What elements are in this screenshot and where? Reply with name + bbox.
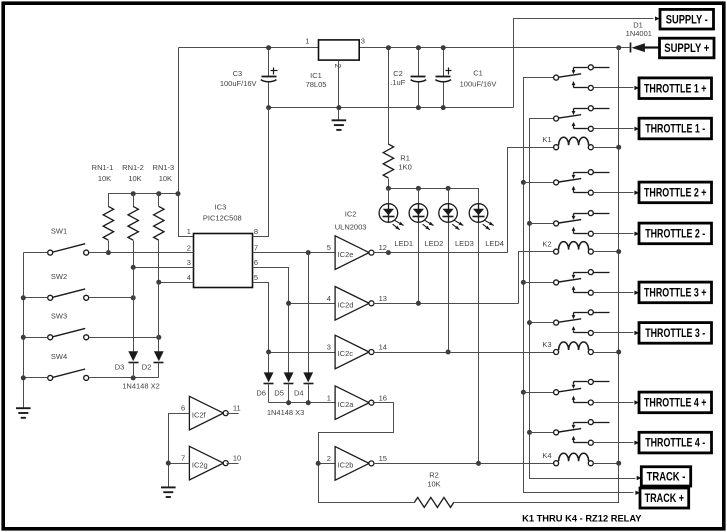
node junction line B contact8 — [527, 430, 532, 435]
node junction K4 bus — [616, 461, 621, 466]
LED4 — [478, 189, 480, 204]
svg-text:IC2c: IC2c — [338, 349, 354, 358]
svg-text:TRACK -: TRACK - — [647, 472, 686, 484]
ground IC2 spare inputs — [161, 487, 176, 497]
svg-text:TRACK +: TRACK + — [645, 493, 685, 505]
wire RN1 top rail — [109, 194, 179, 207]
svg-text:10K: 10K — [98, 174, 111, 183]
svg-text:1: 1 — [187, 227, 191, 236]
svg-text:7: 7 — [254, 243, 258, 252]
node junction IC2b input — [316, 461, 321, 466]
node junction LED4 cathode — [476, 461, 481, 466]
node junction SW3 line — [156, 335, 161, 340]
svg-text:LED4: LED4 — [485, 239, 504, 248]
svg-text:SUPPLY +: SUPPLY + — [664, 43, 709, 55]
svg-text:IC2b: IC2b — [338, 461, 354, 470]
relay contact K3a — [554, 280, 559, 285]
connector THROTTLE 3 - — [639, 323, 712, 344]
relay coil K1 — [554, 145, 559, 150]
node junction RN1 rail at RN1-2 — [131, 191, 136, 196]
svg-text:1: 1 — [305, 37, 309, 46]
connector TRACK + — [640, 488, 689, 508]
wire RN1-2 line down to D3 — [133, 268, 135, 352]
switch SW1 — [48, 250, 53, 255]
svg-text:THROTTLE 3 +: THROTTLE 3 + — [644, 288, 707, 300]
diode D2 1N4148 — [154, 351, 164, 361]
wire line A branch contact5 — [524, 282, 554, 284]
wire line A branch contact3 — [524, 182, 554, 184]
node junction SW2 common — [21, 295, 26, 300]
diode D6 1N4148 — [264, 372, 274, 382]
svg-text:78L05: 78L05 — [306, 80, 327, 89]
svg-text:10K: 10K — [427, 479, 440, 488]
wire V+ bus vertical — [618, 48, 620, 464]
svg-text:4: 4 — [187, 273, 191, 282]
wire diode OR rail to IC2a — [269, 402, 336, 404]
wire R2 to V+ bus — [454, 464, 619, 503]
wire PIC pin6 to IC2d — [253, 268, 336, 304]
svg-text:SW4: SW4 — [51, 352, 67, 361]
wire PIC pin5 to IC2c — [253, 283, 336, 353]
svg-text:R1: R1 — [400, 154, 410, 163]
svg-text:IC2d: IC2d — [338, 301, 354, 310]
wire VDD drop to RN1 and PIC pin1 — [179, 48, 194, 237]
svg-text:PIC12C508: PIC12C508 — [203, 213, 242, 222]
svg-text:16: 16 — [379, 393, 387, 402]
svg-text:C2: C2 — [393, 69, 403, 78]
svg-text:1: 1 — [327, 393, 331, 402]
connector SUPPLY + — [660, 38, 715, 58]
node junction anode rail LED2 — [416, 186, 421, 191]
wire track plus line A — [524, 78, 634, 493]
relay coil K4 — [554, 461, 559, 466]
op-amp buffer IC2g — [189, 446, 223, 480]
svg-text:IC1: IC1 — [310, 71, 322, 80]
svg-text:4: 4 — [327, 294, 331, 303]
svg-text:K4: K4 — [542, 451, 551, 460]
diode D1 1N4001 — [619, 47, 630, 49]
svg-text:IC2f: IC2f — [192, 410, 207, 419]
wire ground rail — [269, 107, 514, 109]
node junction LED3 cathode — [446, 350, 451, 355]
svg-text:K3: K3 — [542, 340, 551, 349]
op-amp buffer IC2f — [189, 396, 223, 430]
relay contact K1a — [554, 75, 559, 80]
svg-text:15: 15 — [379, 454, 387, 463]
svg-text:2: 2 — [327, 454, 331, 463]
wire RN1-3 line down to D2 — [158, 283, 160, 352]
connector THROTTLE 3 + — [639, 282, 712, 303]
node junction SW4 common — [21, 375, 26, 380]
diode D3 1N4148 — [128, 351, 138, 361]
svg-text:11: 11 — [233, 404, 241, 413]
resistor RN1-2 10K — [133, 194, 135, 207]
node junction RN1 rail at VDD line — [176, 191, 181, 196]
svg-text:IC2g: IC2g — [192, 460, 208, 469]
node junction SW3 common — [21, 335, 26, 340]
ground switches — [16, 408, 31, 418]
node junction pin4 RN1-3 — [156, 280, 161, 285]
node junction C2 top — [416, 45, 421, 50]
connector THROTTLE 4 - — [639, 432, 712, 453]
svg-text:LED3: LED3 — [455, 239, 474, 248]
connector THROTTLE 2 + — [639, 182, 712, 203]
svg-text:1K0: 1K0 — [398, 163, 411, 172]
svg-text:.1uF: .1uF — [390, 78, 405, 87]
switch SW4 — [48, 375, 53, 380]
wire D6 line down — [268, 353, 270, 373]
svg-text:D6: D6 — [256, 388, 266, 397]
connector THROTTLE 4 + — [639, 392, 712, 413]
node junction C2 bottom — [416, 105, 421, 110]
connector THROTTLE 1 + — [639, 78, 712, 99]
svg-text:THROTTLE 1 -: THROTTLE 1 - — [645, 124, 705, 136]
node junction RN1 rail at RN1-3 — [156, 191, 161, 196]
resistor RN1-3 10K — [158, 194, 160, 207]
connector TRACK - — [641, 467, 690, 486]
relay contact K2a — [554, 180, 559, 185]
node junction pin5 line at IC2c input — [266, 350, 271, 355]
svg-text:IC2a: IC2a — [338, 400, 355, 409]
svg-text:IC2e: IC2e — [338, 250, 354, 259]
svg-text:5: 5 — [254, 273, 258, 282]
wire switch common vertical to ground — [23, 253, 25, 408]
relay contact K1b — [554, 116, 559, 121]
connector THROTTLE 2 - — [639, 223, 712, 244]
node junction SW4 at D3 — [131, 375, 136, 380]
wire line B branch contact6 — [530, 322, 554, 324]
relay coil K3 — [554, 350, 559, 355]
node junction SW2 line — [131, 295, 136, 300]
wire IC1 pin2 to ground rail — [338, 61, 340, 108]
op-amp buffer IC2c — [335, 335, 369, 369]
node junction IC1 ground — [336, 105, 341, 110]
svg-text:1N4148 X3: 1N4148 X3 — [267, 408, 305, 417]
svg-text:14: 14 — [379, 343, 387, 352]
node junction line A contact5 — [521, 280, 526, 285]
svg-text:RN1-2: RN1-2 — [122, 163, 144, 172]
svg-text:3: 3 — [187, 258, 191, 267]
svg-text:3: 3 — [361, 37, 365, 46]
wire line B branch contact4 — [530, 223, 554, 225]
svg-text:100uF/16V: 100uF/16V — [220, 79, 257, 88]
svg-text:LED1: LED1 — [394, 239, 413, 248]
svg-text:IC3: IC3 — [215, 203, 227, 212]
svg-text:R2: R2 — [429, 470, 439, 479]
svg-text:SW1: SW1 — [51, 227, 67, 236]
wire IC2f IC2g inputs to ground — [169, 414, 190, 487]
svg-text:10K: 10K — [159, 174, 172, 183]
svg-text:C3: C3 — [233, 69, 243, 78]
op-amp buffer IC2b — [335, 447, 369, 481]
svg-text:13: 13 — [379, 294, 387, 303]
node junction D5 rail — [286, 400, 291, 405]
svg-text:100uF/16V: 100uF/16V — [460, 79, 497, 88]
node junction anode rail R1 — [386, 186, 391, 191]
wire IC2d output to K2 — [374, 303, 519, 305]
svg-text:D4: D4 — [294, 388, 304, 397]
capacitor C3 — [268, 48, 270, 77]
wire SW3 to diode line — [90, 337, 159, 339]
LED2 — [418, 189, 420, 204]
svg-text:LED2: LED2 — [425, 239, 444, 248]
svg-text:2: 2 — [333, 64, 342, 69]
node junction D4 rail — [306, 400, 311, 405]
svg-text:THROTTLE 3 -: THROTTLE 3 - — [645, 328, 705, 340]
wire LED2 cathode down — [418, 223, 420, 304]
node junction anode rail LED3 — [446, 186, 451, 191]
node junction D1 bus — [616, 45, 621, 50]
svg-text:IC2: IC2 — [345, 209, 357, 218]
wire SW2 to diode line — [90, 297, 134, 299]
svg-text:3: 3 — [327, 343, 331, 352]
relay contact K4b — [554, 430, 559, 435]
svg-text:K1: K1 — [542, 135, 551, 144]
svg-text:8: 8 — [254, 227, 258, 236]
wire D5 line down — [288, 304, 290, 373]
svg-text:D2: D2 — [142, 363, 152, 372]
resistor R2 10K — [414, 497, 453, 507]
switch SW3 — [48, 335, 53, 340]
op-amp buffer IC2e — [335, 236, 369, 270]
svg-text:THROTTLE 4 +: THROTTLE 4 + — [644, 398, 707, 410]
node junction line A contact3 — [521, 180, 526, 185]
svg-text:D3: D3 — [115, 363, 125, 372]
wire R2 net from IC2b input — [319, 464, 415, 503]
node junction C3 bottom — [266, 105, 271, 110]
capacitor C2 — [418, 48, 420, 77]
wire LED3 cathode down — [448, 223, 450, 353]
node junction LED2 cathode — [416, 301, 421, 306]
node junction K3 bus — [616, 350, 621, 355]
node junction C3 top — [266, 45, 271, 50]
node junction IC2g input — [166, 461, 171, 466]
node junction line B contact6 — [527, 320, 532, 325]
resistor R1 1K0 — [388, 48, 390, 145]
svg-text:ULN2003: ULN2003 — [335, 222, 367, 231]
wire unregulated input rail — [360, 47, 619, 49]
svg-text:K1 THRU K4 - RZ12 RELAY: K1 THRU K4 - RZ12 RELAY — [522, 513, 642, 523]
wire PIC pin7 to IC2e — [253, 252, 336, 254]
svg-text:6: 6 — [254, 258, 258, 267]
node junction pin7 D4 line — [306, 250, 311, 255]
wire IC2c output to K3 — [374, 352, 554, 354]
svg-text:THROTTLE 4 -: THROTTLE 4 - — [645, 438, 705, 450]
node junction line A contact7 — [521, 390, 526, 395]
wire IC2b output to K4 — [374, 463, 554, 465]
op-amp buffer IC2d — [335, 287, 369, 321]
capacitor C1 — [443, 48, 445, 77]
wire LED anode rail — [389, 189, 479, 204]
svg-text:10: 10 — [233, 454, 241, 463]
svg-text:6: 6 — [181, 404, 185, 413]
svg-text:C1: C1 — [473, 69, 483, 78]
svg-text:5: 5 — [327, 243, 331, 252]
svg-text:THROTTLE 1 +: THROTTLE 1 + — [644, 83, 707, 95]
node junction pin3 RN1-2 — [131, 265, 136, 270]
wire line A branch contact7 — [524, 392, 554, 394]
svg-text:RN1-3: RN1-3 — [153, 163, 175, 172]
node junction K1 bus — [616, 145, 621, 150]
wire IC2a output loop to IC2b input — [319, 403, 394, 464]
wire D4 line down — [308, 253, 310, 373]
wire line B branch contact8 — [530, 432, 554, 434]
op-amp buffer IC2a — [335, 386, 369, 420]
relay contact K4a — [554, 390, 559, 395]
node junction pin6 line at IC2d input — [286, 301, 291, 306]
svg-text:SW2: SW2 — [51, 272, 67, 281]
svg-text:THROTTLE 2 +: THROTTLE 2 + — [644, 188, 707, 200]
svg-text:SUPPLY -: SUPPLY - — [666, 14, 708, 26]
wire 5V rail — [179, 47, 319, 49]
ground IC1 — [338, 108, 340, 121]
PIC IC3 PIC12C508 — [194, 234, 253, 288]
svg-text:1N4001: 1N4001 — [626, 29, 652, 38]
wire LED4 cathode down — [478, 223, 480, 464]
node junction C1 top — [441, 45, 446, 50]
relay coil K2 — [554, 249, 559, 254]
svg-text:10K: 10K — [128, 174, 141, 183]
node junction LED1 cathode — [386, 250, 391, 255]
diode D4 1N4148 — [303, 372, 313, 382]
wire SUPPLY- return — [514, 19, 654, 108]
relay contact K2b — [554, 221, 559, 226]
switch SW2 — [48, 295, 53, 300]
connector THROTTLE 1 - — [639, 118, 712, 139]
relay contact K3b — [554, 320, 559, 325]
svg-text:12: 12 — [379, 243, 387, 252]
wire IC2e output to K1 — [374, 252, 508, 254]
svg-text:7: 7 — [181, 454, 185, 463]
node junction line B contact4 — [527, 221, 532, 226]
diode D5 1N4148 — [284, 372, 294, 382]
regulator IC1 78L05 — [319, 40, 360, 60]
resistor RN1-1 10K — [103, 206, 113, 240]
node junction C1 bottom — [441, 105, 446, 110]
LED3 — [448, 189, 450, 204]
wire PIC pin3 rail — [134, 267, 194, 269]
node junction R1 top — [386, 45, 391, 50]
node junction RN1-1 bottom — [106, 250, 111, 255]
svg-text:D5: D5 — [274, 388, 284, 397]
wire SW1 to PIC pin2 — [90, 252, 194, 254]
wire PIC pin4 rail — [159, 282, 194, 284]
svg-text:THROTTLE 2 -: THROTTLE 2 - — [645, 229, 705, 241]
svg-text:RN1-1: RN1-1 — [92, 163, 114, 172]
wire track minus line B — [530, 119, 636, 479]
svg-text:2: 2 — [187, 243, 191, 252]
svg-text:1N4148 X2: 1N4148 X2 — [122, 381, 160, 390]
svg-text:K2: K2 — [542, 240, 551, 249]
LED1 — [388, 189, 390, 204]
wire SW4 to diodes D3 D2 — [90, 377, 159, 379]
svg-text:SW3: SW3 — [51, 311, 67, 320]
wire PIC pin8 to ground rail — [253, 108, 269, 237]
connector SUPPLY - — [660, 9, 714, 29]
node junction K2 bus — [616, 249, 621, 254]
